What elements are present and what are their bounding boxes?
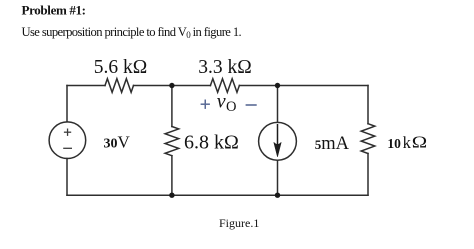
current source I1 circle: [259, 122, 297, 160]
resistor R3 6.8k vertical zigzag: [165, 127, 179, 156]
svg-text:6.8 kΩ: 6.8 kΩ: [184, 132, 239, 154]
wire bottom rail: [67, 194, 368, 196]
voltage source plus mark: [64, 129, 71, 136]
wire current source branch lower: [277, 160, 279, 195]
svg-text:Problem #1:: Problem #1:: [22, 2, 86, 17]
node junction dot top current source: [275, 83, 280, 88]
wire left rail lower: [66, 159, 68, 196]
wire right rail upper: [367, 86, 369, 124]
wire right rail lower: [367, 154, 369, 196]
svg-text:5.6 kΩ: 5.6 kΩ: [94, 57, 148, 78]
resistor R1 5.6k zigzag: [105, 79, 134, 93]
wire top right segment: [239, 85, 368, 87]
node junction dot bottom middle: [169, 193, 174, 198]
wire middle branch lower: [171, 156, 173, 196]
svg-text:O: O: [226, 99, 236, 115]
node junction dot bottom current source: [275, 193, 280, 198]
svg-text:3.3 kΩ: 3.3 kΩ: [198, 57, 252, 78]
node junction dot top middle: [169, 83, 174, 88]
voltage source minus mark: [63, 147, 72, 149]
wire top middle segment: [134, 85, 211, 87]
resistor R2 3.3k zigzag: [210, 79, 239, 93]
svg-text:10k: 10k: [387, 133, 411, 152]
resistor R4 10k vertical zigzag: [361, 124, 375, 154]
svg-text:Figure.1: Figure.1: [219, 216, 259, 230]
svg-text:Use superposition principle to: Use superposition principle to find V0 i…: [22, 25, 242, 40]
wire middle branch upper: [171, 86, 173, 127]
svg-text:30V: 30V: [104, 132, 131, 151]
wire top: left rail top corner to right rail top corner: [67, 85, 105, 87]
current source arrow: [274, 124, 281, 157]
voltage source V1 circle: [49, 122, 86, 159]
svg-text:v: v: [217, 91, 226, 113]
svg-text:5mA: 5mA: [315, 134, 350, 154]
vo minus sign: [246, 104, 257, 106]
wire current source branch upper: [277, 86, 279, 123]
svg-text:Ω: Ω: [412, 133, 427, 152]
vo plus sign: [201, 100, 210, 109]
wire left rail upper: [66, 86, 68, 122]
